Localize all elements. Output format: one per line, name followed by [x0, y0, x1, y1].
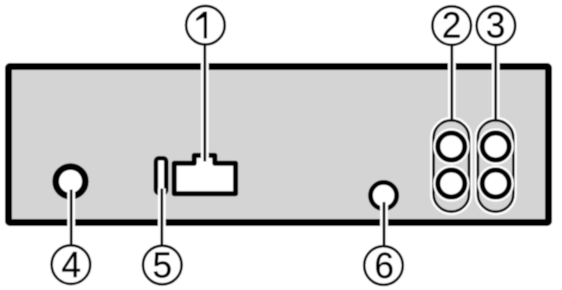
callout circle 2	[432, 6, 471, 45]
leader line 2 casing	[448, 44, 456, 117]
svg-text:2: 2	[442, 5, 462, 45]
svg-text:5: 5	[152, 245, 172, 285]
callout circle 3	[477, 6, 516, 45]
leader line 6 core	[383, 202, 386, 247]
svg-text:4: 4	[61, 245, 81, 285]
leader line 6 casing	[380, 202, 388, 247]
RCA jack left-top ring	[438, 133, 465, 160]
leader line 1 casing	[201, 44, 209, 162]
RCA jack right-bottom halo	[478, 165, 514, 201]
RCA jack right-bottom ring	[482, 170, 509, 197]
RCA jack left-bottom halo	[433, 165, 469, 201]
antenna jack (item 4)	[56, 167, 86, 197]
RCA jack pair right halo (item 3)	[478, 120, 513, 211]
RCA jack left-bottom ring	[438, 170, 465, 197]
leader line 5 core	[160, 189, 163, 247]
RCA jack pair left halo (item 2)	[434, 120, 469, 211]
leader line 3 core	[494, 44, 497, 121]
RCA jack right-top halo	[478, 128, 514, 164]
callout circle 6	[364, 246, 403, 285]
leader line 1 core	[203, 44, 206, 162]
svg-text:3: 3	[486, 5, 506, 45]
leader line 5 casing	[158, 189, 166, 247]
small connector (item 5)	[156, 158, 166, 193]
RCA jack left-top halo	[433, 128, 469, 164]
rear panel chassis	[9, 67, 549, 223]
callout circle 5	[143, 246, 182, 285]
leader line 3 casing	[492, 44, 500, 117]
RCA jack right-top ring	[482, 133, 509, 160]
RCA jack pair right outline	[478, 120, 513, 211]
leader line 4 core	[70, 190, 73, 247]
leader line 4 casing	[67, 190, 75, 247]
svg-text:6: 6	[374, 246, 394, 286]
leader line 2 core	[450, 44, 453, 121]
main wiring connector (item 1)	[174, 155, 235, 193]
callout circle 4	[52, 245, 91, 284]
RCA jack pair left outline	[434, 120, 469, 211]
callout label 1	[196, 12, 207, 39]
callout circle 1	[186, 6, 225, 45]
small round jack (item 6)	[371, 182, 397, 208]
